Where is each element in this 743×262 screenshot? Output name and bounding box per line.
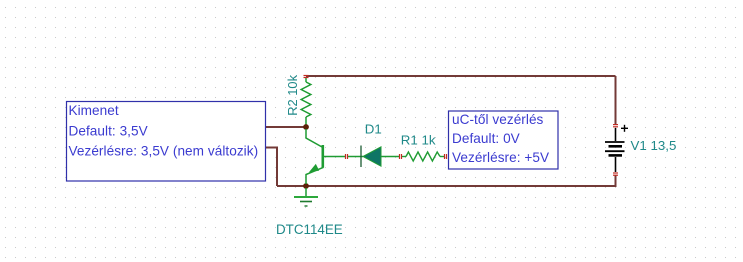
pin mark battery +: [613, 125, 618, 127]
wire battery - to bottom rail: [277, 175, 616, 186]
annotation box uC control: [449, 111, 559, 169]
svg-text:DTC114EE: DTC114EE: [276, 222, 343, 237]
pin mark R1 right: [445, 154, 447, 159]
svg-text:R1 1k: R1 1k: [401, 133, 436, 148]
pin mark R2 top: [304, 76, 309, 78]
pin mark base/diode anode: [346, 154, 348, 159]
transistor Q1 DTC114EE: [306, 129, 345, 184]
svg-text:R2 10k: R2 10k: [285, 74, 300, 115]
node collector junction: [303, 124, 309, 130]
svg-text:D1: D1: [365, 121, 382, 136]
resistor R2: [301, 77, 311, 127]
svg-text:Vezérlésre: 3,5V (nem változik: Vezérlésre: 3,5V (nem változik): [69, 144, 259, 159]
resistor R1: [402, 152, 445, 161]
battery V1: [605, 128, 625, 172]
pin mark D1 cathode / R1 left: [400, 154, 402, 159]
diode D1: [348, 146, 399, 168]
wire top rail: [306, 75, 616, 77]
annotation box Kimenet: [67, 102, 266, 182]
svg-text:V1 13,5: V1 13,5: [631, 138, 677, 153]
transistor emitter arrow: [309, 164, 319, 173]
svg-text:Default: 0V: Default: 0V: [452, 131, 520, 146]
ground: [294, 188, 318, 206]
pin mark battery -: [613, 173, 618, 175]
svg-text:uC-től vezérlés: uC-től vezérlés: [452, 112, 544, 127]
svg-text:Kimenet: Kimenet: [69, 103, 119, 118]
wire Kimenet box to collector node: [265, 126, 306, 128]
svg-text:Default: 3,5V: Default: 3,5V: [69, 123, 148, 138]
wire bottom riser to Kimenet box: [265, 148, 277, 187]
wire right drop to battery +: [615, 76, 617, 125]
node emitter junction: [303, 183, 309, 189]
svg-text:Vezérlésre: +5V: Vezérlésre: +5V: [452, 150, 549, 165]
battery plus sign: [621, 125, 628, 132]
